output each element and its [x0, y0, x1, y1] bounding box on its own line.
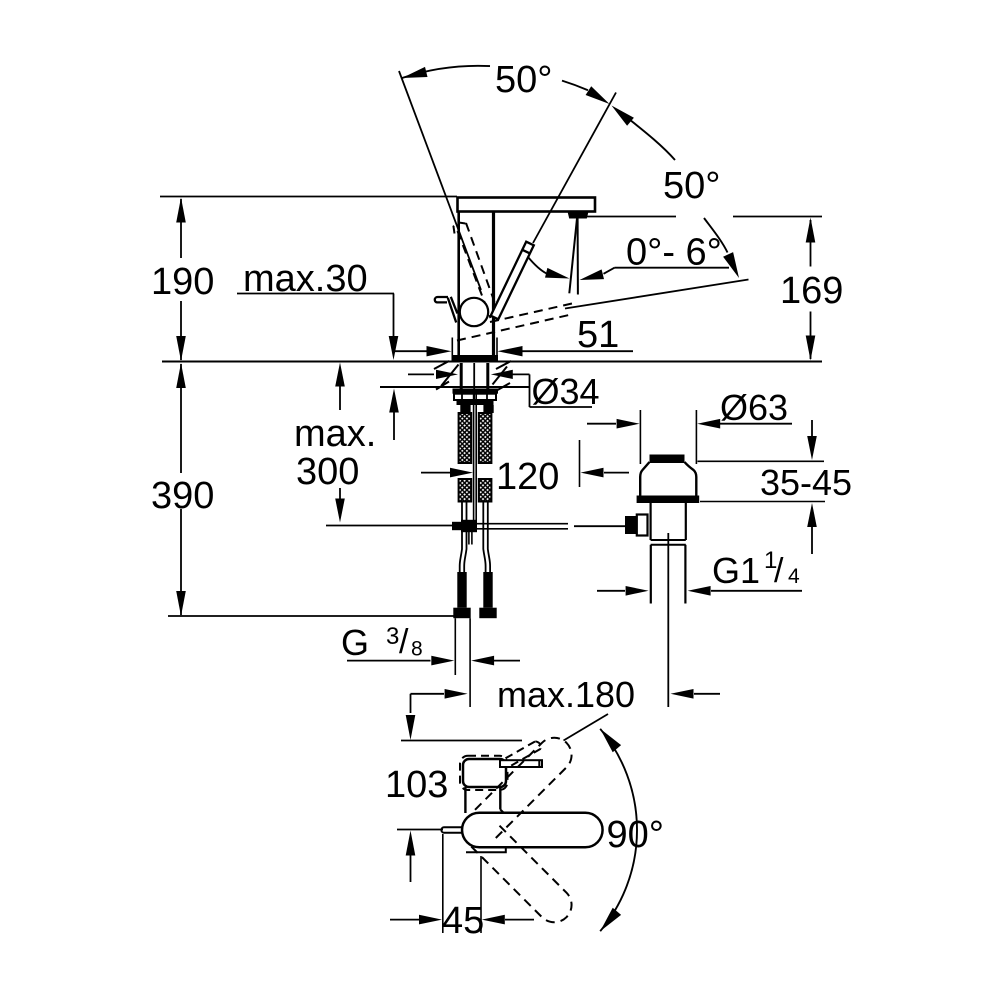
G3/8 connector nuts [453, 608, 470, 619]
dimension 120 rod length [421, 472, 450, 474]
hose crimp sleeves [457, 572, 466, 608]
pop-up rod vertical line a [473, 390, 475, 520]
threaded shank [460, 363, 463, 389]
drain body [649, 503, 651, 540]
braided hose left lower [459, 479, 472, 502]
ext line spout axis [397, 829, 443, 831]
leader max180 to dashed capsule [564, 714, 609, 741]
svg-text:max.180: max.180 [497, 674, 635, 715]
svg-text:/: / [774, 552, 784, 590]
svg-text:45: 45 [442, 900, 484, 942]
dimension 169 [810, 220, 812, 267]
arc1 right arrowhead [586, 86, 610, 104]
0-6deg leader horizontal [615, 267, 730, 269]
dashed lever 45deg edge2 [511, 749, 541, 766]
rod clevis at drain [625, 516, 637, 534]
ext line top of faucet y196 [160, 196, 457, 198]
top view body column right [499, 787, 501, 810]
svg-text:390: 390 [151, 475, 214, 517]
braided hose left upper [459, 413, 472, 463]
spout outlet hook [435, 297, 448, 302]
oblique tick counter left top [434, 361, 449, 369]
dimension 35-45 clamping range [698, 460, 825, 462]
dashed handle raised edge 2 [466, 223, 495, 302]
faucet top plate [458, 198, 596, 212]
ext line rod level [326, 525, 452, 527]
svg-text:169: 169 [780, 270, 843, 312]
dimension G3/8 [347, 660, 431, 662]
svg-text:103: 103 [385, 764, 448, 806]
dimension diameter 63 drain flange [639, 410, 641, 464]
ext line hose bottom y616 [168, 615, 454, 617]
dimension diameter 34 shank [408, 373, 434, 375]
svg-text:190: 190 [151, 261, 214, 303]
dashed handle lowest edge 2 [490, 304, 572, 323]
braided hose right upper [479, 413, 492, 463]
svg-text:90°: 90° [607, 814, 664, 856]
svg-text:120: 120 [496, 456, 559, 498]
arc2 upper arrowhead [612, 106, 634, 126]
90deg arc top arrowhead [600, 729, 621, 752]
oblique tick [493, 367, 508, 385]
svg-text:Ø34: Ø34 [532, 371, 600, 412]
top view lever [500, 760, 542, 767]
oblique tick [442, 365, 459, 386]
handle raised axis line 50deg left [399, 71, 481, 290]
dashed handle raised edge 1 [458, 231, 491, 318]
capsule lower lip [466, 847, 506, 852]
stud ext line left [454, 618, 456, 675]
drain centerline [667, 533, 669, 707]
mounting washer stack [453, 389, 499, 394]
rod below junction a [468, 532, 470, 545]
top view body [463, 759, 506, 787]
dimension 51 body width [451, 338, 453, 363]
spout hook outer slant [448, 298, 456, 323]
0-6deg right arrowhead [580, 269, 605, 280]
handle lowest axis thin line 6deg [565, 280, 749, 309]
braided hose right lower [479, 479, 492, 502]
hose tails to connectors [460, 502, 462, 573]
top view body dashed [460, 756, 508, 790]
dashed lever tip [535, 741, 541, 748]
dashed lever 45deg edge1 [506, 741, 536, 758]
counter top surface line [162, 361, 822, 363]
svg-text:G: G [341, 622, 369, 663]
ext line aerator level left part [587, 216, 676, 218]
svg-text:/: / [399, 623, 409, 661]
hose crimp tops [460, 405, 470, 413]
top view body column left [464, 787, 466, 813]
0-6deg left arrowhead [545, 268, 570, 279]
drain tailpiece G1 1/4 [650, 545, 652, 604]
dimension 45 [442, 834, 444, 933]
water stream line vertical [577, 219, 579, 295]
ext line back of faucet top view [401, 740, 522, 742]
svg-text:50°: 50° [495, 59, 552, 101]
50deg arc left segment [402, 66, 490, 78]
dashed handle lowest edge 1 [457, 315, 569, 341]
50deg arc mid segment [562, 81, 588, 91]
90deg swing arc [600, 729, 637, 931]
dashed spout capsule swung up 45deg [471, 822, 571, 922]
arc1 left arrowhead [402, 67, 428, 78]
svg-text:max.: max. [294, 413, 376, 455]
pop-up rod horizontal [477, 523, 568, 525]
water stream line tilted 6deg [569, 219, 577, 294]
dimension 103 [406, 715, 416, 740]
svg-text:8: 8 [411, 638, 423, 661]
oblique tick counter right top [496, 361, 511, 369]
50deg arc2 upper segment [619, 111, 675, 160]
pop-up rod vertical line b [475, 390, 477, 520]
pop-up rod T junction [452, 522, 461, 530]
spout tip outlet [441, 827, 462, 832]
faucet base flange [453, 355, 499, 362]
svg-text:G1: G1 [712, 550, 760, 591]
drain flange outline [640, 462, 696, 496]
rod below junction b [471, 532, 473, 545]
svg-text:Ø63: Ø63 [720, 387, 788, 428]
dimension 190 [180, 199, 182, 258]
svg-text:4: 4 [788, 565, 800, 588]
oblique tick counter left bottom [436, 382, 449, 390]
svg-text:35-45: 35-45 [760, 462, 852, 503]
svg-text:51: 51 [577, 314, 619, 356]
arc2 lower arrowhead [723, 252, 739, 278]
stud ext line right [469, 618, 471, 707]
svg-text:300: 300 [296, 451, 359, 493]
svg-text:3: 3 [386, 623, 399, 650]
counter bottom line [380, 386, 529, 388]
dimension 390 [180, 364, 182, 473]
oblique tick counter right bottom [494, 383, 510, 392]
0-6deg right leader slant [604, 268, 615, 274]
handle lever bar [491, 242, 534, 320]
svg-text:50°: 50° [663, 165, 720, 207]
faucet body right edge [492, 212, 495, 357]
ext line aerator level right part [733, 216, 822, 218]
0-6deg left leader curve [528, 257, 547, 274]
dashed handle raised cap [454, 223, 466, 234]
50deg arc2 lower segment [704, 218, 728, 253]
dimension G1 1/4 thread [597, 590, 625, 592]
pop-up drain valve [650, 455, 685, 463]
90deg arc bottom arrowhead [600, 908, 621, 931]
aerator outlet [568, 212, 589, 219]
dimension max.180 [410, 694, 412, 713]
faucet body left edge [457, 212, 460, 357]
spout hook inner slant [451, 297, 458, 314]
handle axis extension line [533, 93, 616, 244]
